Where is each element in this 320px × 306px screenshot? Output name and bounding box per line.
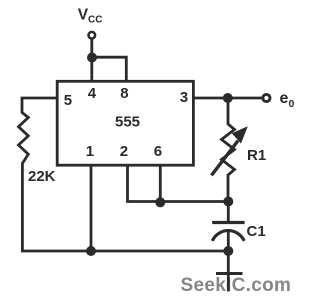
- svg-text:CC: CC: [88, 15, 102, 26]
- svg-text:3: 3: [180, 89, 188, 106]
- svg-text:e: e: [280, 90, 289, 107]
- svg-text:555: 555: [115, 114, 140, 131]
- svg-text:SeekIC.com: SeekIC.com: [181, 275, 292, 296]
- svg-text:C1: C1: [247, 223, 266, 240]
- svg-text:8: 8: [120, 85, 128, 102]
- svg-text:1: 1: [86, 143, 94, 160]
- svg-text:6: 6: [154, 143, 162, 160]
- svg-text:22K: 22K: [28, 168, 56, 185]
- svg-text:4: 4: [88, 85, 97, 102]
- svg-text:2: 2: [120, 143, 128, 160]
- svg-text:R1: R1: [247, 147, 266, 164]
- svg-text:5: 5: [64, 92, 72, 109]
- svg-text:0: 0: [289, 98, 295, 110]
